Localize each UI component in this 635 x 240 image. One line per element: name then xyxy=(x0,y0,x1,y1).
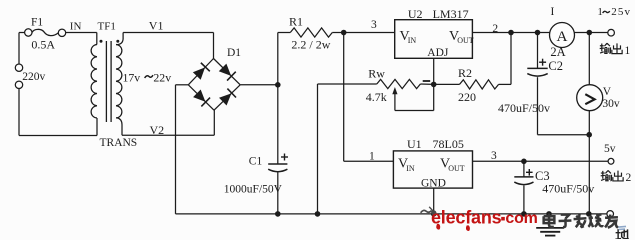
svg-text:F1: F1 xyxy=(31,17,43,29)
svg-text:2: 2 xyxy=(626,172,632,184)
svg-text:30v: 30v xyxy=(602,98,620,110)
svg-text:470uF/50v: 470uF/50v xyxy=(498,101,550,115)
svg-text:3: 3 xyxy=(491,150,497,162)
svg-text:I: I xyxy=(551,6,555,18)
svg-text:IN: IN xyxy=(406,164,415,173)
svg-text:D1: D1 xyxy=(227,47,241,59)
svg-text:25v: 25v xyxy=(611,6,631,18)
svg-text:22v: 22v xyxy=(153,70,171,84)
svg-text:V: V xyxy=(603,86,612,98)
svg-text:220: 220 xyxy=(458,90,476,104)
svg-text:1000uF/50V: 1000uF/50V xyxy=(224,184,283,196)
svg-text:220v: 220v xyxy=(22,71,45,83)
svg-text:3: 3 xyxy=(371,19,377,31)
svg-text:OUT: OUT xyxy=(448,164,465,173)
svg-text:4.7k: 4.7k xyxy=(366,90,387,104)
svg-text:V1: V1 xyxy=(149,18,164,32)
svg-text:1: 1 xyxy=(597,6,603,18)
svg-text:C1: C1 xyxy=(249,155,263,167)
svg-text:1: 1 xyxy=(625,45,631,57)
svg-text:C2: C2 xyxy=(548,59,563,73)
svg-text:470uF/50v: 470uF/50v xyxy=(542,182,594,196)
svg-text:5v: 5v xyxy=(604,143,616,155)
svg-text:78L05: 78L05 xyxy=(433,137,464,151)
svg-text:R2: R2 xyxy=(458,66,472,80)
svg-text:Rw: Rw xyxy=(368,67,385,81)
svg-text:V2: V2 xyxy=(150,123,165,137)
svg-text:17v: 17v xyxy=(123,70,141,84)
svg-text:IN: IN xyxy=(70,20,82,32)
svg-text:2: 2 xyxy=(492,23,498,35)
svg-text:GND: GND xyxy=(421,177,446,189)
svg-text:U2: U2 xyxy=(408,7,423,21)
svg-text:R1: R1 xyxy=(289,15,303,29)
svg-text:TF1: TF1 xyxy=(98,21,116,33)
svg-text:LM317: LM317 xyxy=(433,7,469,21)
svg-text:1: 1 xyxy=(369,151,375,163)
svg-text:ADJ: ADJ xyxy=(427,47,449,59)
svg-text:U1: U1 xyxy=(407,137,422,151)
svg-text:TRANS: TRANS xyxy=(100,137,138,149)
svg-text:IN: IN xyxy=(408,36,417,45)
svg-text:0.5A: 0.5A xyxy=(31,38,55,52)
svg-text:com: com xyxy=(505,210,537,227)
svg-text:2.2 / 2w: 2.2 / 2w xyxy=(291,38,330,52)
svg-text:A: A xyxy=(557,28,568,45)
svg-text:OUT: OUT xyxy=(457,36,474,45)
svg-text:2A: 2A xyxy=(550,45,565,59)
svg-text:elecfans: elecfans xyxy=(431,207,502,227)
